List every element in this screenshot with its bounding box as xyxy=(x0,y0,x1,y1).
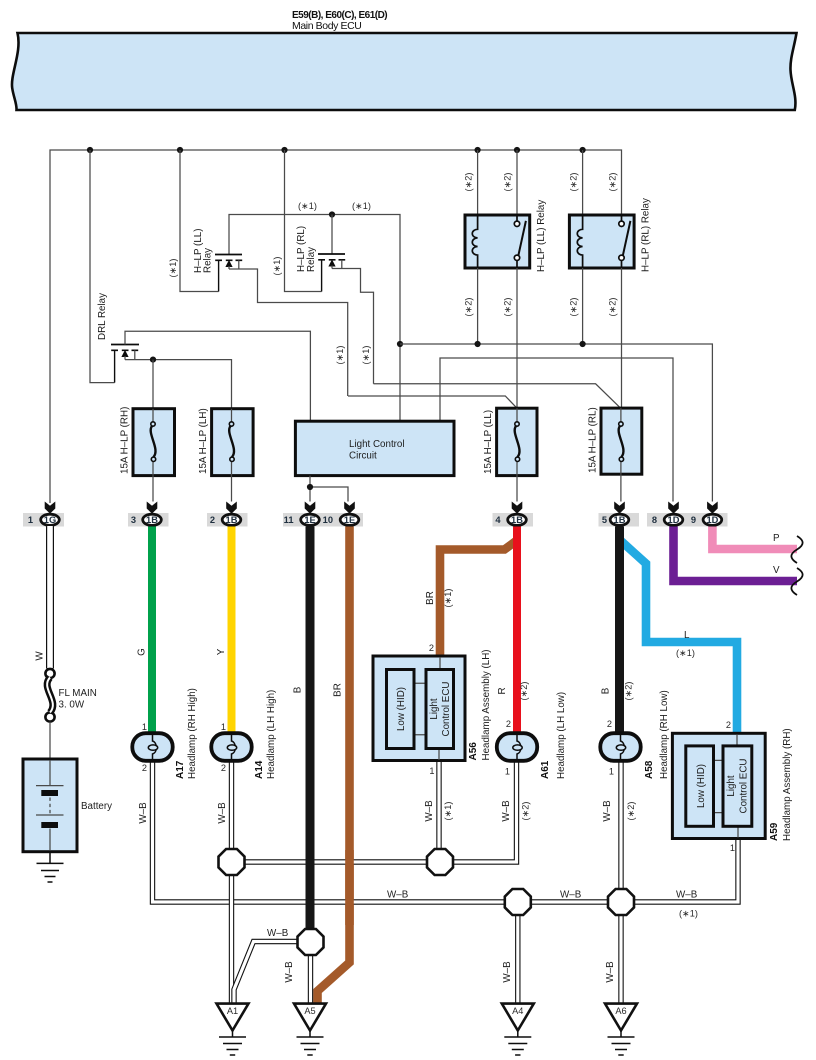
svg-text:Relay: Relay xyxy=(306,247,317,272)
svg-text:W–B: W–B xyxy=(676,890,698,901)
transistor Q1 H-LP (LL) Relay xyxy=(215,255,242,292)
svg-text:1: 1 xyxy=(142,722,147,732)
battery BT1 xyxy=(23,759,77,852)
svg-text:(∗1): (∗1) xyxy=(335,346,345,365)
wire RL gate drop xyxy=(331,215,333,254)
junction node bus x582 xyxy=(580,147,586,153)
wire LCC to connector 8 xyxy=(440,358,673,502)
svg-text:2: 2 xyxy=(210,515,215,525)
svg-text:15A H–LP (LL): 15A H–LP (LL) xyxy=(483,410,494,474)
connector terminal 11 (1E) xyxy=(284,502,320,526)
svg-text:W–B: W–B xyxy=(387,890,409,901)
svg-text:Circuit: Circuit xyxy=(349,451,377,462)
splice octagon J5 main A6 xyxy=(608,889,634,915)
wire W-B octagon branch to A1 xyxy=(234,942,311,1004)
wire P pink from connector 9 xyxy=(712,527,797,550)
ground A6 xyxy=(605,1004,637,1055)
svg-text:(∗1): (∗1) xyxy=(361,346,371,365)
junction node gate RL xyxy=(329,211,335,217)
svg-text:H–LP (RL) Relay: H–LP (RL) Relay xyxy=(641,198,652,272)
svg-text:(∗2): (∗2) xyxy=(608,173,618,192)
connector terminal 9 (1D) xyxy=(691,502,722,526)
splice octagon J3 black wire xyxy=(298,929,324,955)
svg-text:Battery: Battery xyxy=(81,801,112,812)
svg-text:H–LP (LL) Relay: H–LP (LL) Relay xyxy=(536,200,547,272)
connector band xyxy=(493,513,534,527)
transistor Q3 DRL Relay xyxy=(111,345,139,383)
svg-text:W–B: W–B xyxy=(138,802,149,824)
svg-text:Light: Light xyxy=(429,698,440,720)
wire bus to RL relay coil xyxy=(582,150,584,215)
wire V purple from connector 8 xyxy=(674,527,798,582)
svg-text:2: 2 xyxy=(726,720,731,730)
fuse F4 15A H-LP (RL) xyxy=(601,408,642,474)
wire W-B junction to ground A1 xyxy=(229,862,234,1003)
svg-text:11: 11 xyxy=(284,515,294,525)
svg-text:W–B: W–B xyxy=(424,800,435,822)
wire segment black over crossing xyxy=(306,850,315,930)
svg-text:(∗1): (∗1) xyxy=(272,257,282,276)
svg-text:1: 1 xyxy=(609,767,614,777)
junction node bus x477 xyxy=(475,147,481,153)
wire bus to DRL relay source xyxy=(90,150,115,383)
wire junction to RH fuse xyxy=(152,360,154,409)
svg-text:(∗2): (∗2) xyxy=(503,173,513,192)
svg-text:(∗2): (∗2) xyxy=(569,173,579,192)
svg-text:W–B: W–B xyxy=(602,800,613,822)
svg-text:L: L xyxy=(684,630,690,641)
wire bus to H-LP (LL) relay source xyxy=(180,150,219,292)
wire W-B A56 pin1 to junction xyxy=(436,761,441,863)
relay U2 H-LP (LL) Relay box xyxy=(465,215,530,268)
junction node x400 y344 xyxy=(397,341,403,347)
junction node bus x517 xyxy=(514,147,520,153)
svg-text:(∗1): (∗1) xyxy=(443,589,453,608)
connector terminal 1 (1G) xyxy=(28,502,59,526)
wire W-B octagon to ground A4 xyxy=(515,902,520,1003)
wire Y yellow from connector 2 xyxy=(228,527,236,734)
svg-text:W–B: W–B xyxy=(502,961,513,983)
svg-text:Headlamp (LH Low): Headlamp (LH Low) xyxy=(556,692,567,779)
relay U3 H-LP (RL) Relay box xyxy=(569,215,634,268)
svg-text:2: 2 xyxy=(506,719,511,729)
svg-text:A6: A6 xyxy=(615,1006,626,1016)
svg-text:15A H–LP (RH): 15A H–LP (RH) xyxy=(120,407,131,474)
wire bus to LL relay coil xyxy=(477,150,479,215)
connector band xyxy=(647,513,728,527)
junction node LL coil y344 xyxy=(475,341,481,347)
switch of RL relay xyxy=(619,216,631,267)
ground A1 xyxy=(217,1004,249,1055)
svg-text:Headlamp (RH Low): Headlamp (RH Low) xyxy=(659,690,670,779)
junction node DRL drain xyxy=(150,357,156,363)
wire G green from connector 3 xyxy=(148,527,156,734)
svg-text:(∗2): (∗2) xyxy=(626,802,636,821)
fuse F1 15A H-LP (RH) xyxy=(133,409,175,476)
connector terminal 10 (1E) xyxy=(323,502,359,526)
svg-text:Headlamp (LH High): Headlamp (LH High) xyxy=(266,690,277,779)
junction node LCC pins xyxy=(307,484,313,490)
op-amp U4 Light Control Circuit box xyxy=(295,421,454,475)
gate wire for transistor relays xyxy=(229,215,400,422)
svg-text:A1: A1 xyxy=(227,1006,238,1016)
svg-text:1E: 1E xyxy=(344,515,355,525)
svg-text:FL MAIN: FL MAIN xyxy=(59,688,97,699)
wire DRL gate xyxy=(125,331,310,421)
svg-text:1B: 1B xyxy=(226,515,238,525)
wire B black from connector 11 xyxy=(306,527,315,931)
connector terminal 2 (1B) xyxy=(210,502,241,526)
svg-text:1E: 1E xyxy=(304,515,315,525)
svg-text:Headlamp (RH High): Headlamp (RH High) xyxy=(187,688,198,779)
svg-text:1D: 1D xyxy=(668,515,680,525)
svg-text:5: 5 xyxy=(602,515,607,525)
wire BR brown branch to A56 xyxy=(440,541,516,656)
lamp A17 Headlamp (RH High) xyxy=(132,733,172,761)
svg-text:1: 1 xyxy=(505,767,510,777)
wire W-B main ground line A17 to A59 xyxy=(153,761,739,902)
Main Body ECU band U1 xyxy=(12,33,797,110)
svg-text:Relay: Relay xyxy=(203,248,214,273)
fuse FL MAIN 3.0W fusible link xyxy=(45,669,54,722)
svg-text:1: 1 xyxy=(221,722,226,732)
junction node RL coil y344 xyxy=(580,341,586,347)
assembly A56 Headlamp Assembly (LH) box xyxy=(373,656,465,761)
power bus wire xyxy=(50,150,622,503)
assembly A59 Headlamp Assembly (RH) box xyxy=(672,733,765,838)
svg-text:B: B xyxy=(601,687,612,694)
svg-text:Light Control: Light Control xyxy=(349,439,405,450)
svg-text:15A H–LP (LH): 15A H–LP (LH) xyxy=(198,408,209,474)
svg-text:(∗2): (∗2) xyxy=(464,298,474,317)
wire R red from connector 4 xyxy=(513,527,521,734)
svg-text:1B: 1B xyxy=(511,515,523,525)
svg-text:9: 9 xyxy=(691,515,696,525)
wire LL fuse to connector 4 xyxy=(516,476,518,502)
wire LL coil to node line xyxy=(477,268,479,344)
svg-text:Y: Y xyxy=(216,648,227,655)
svg-text:BR: BR xyxy=(425,591,436,605)
svg-text:1: 1 xyxy=(429,766,434,776)
svg-text:3: 3 xyxy=(131,515,136,525)
wire bus to H-LP (RL) relay source xyxy=(285,150,322,292)
svg-text:P: P xyxy=(773,533,780,544)
svg-text:(∗2): (∗2) xyxy=(569,298,579,317)
svg-text:W–B: W–B xyxy=(560,890,582,901)
continuation symbol V wire xyxy=(791,568,802,595)
wire LL transistor drain xyxy=(229,269,348,396)
connector band xyxy=(128,513,169,527)
connector terminal 4 (1B) xyxy=(495,502,526,526)
splice octagon J2 A56 side xyxy=(427,849,453,875)
svg-text:10: 10 xyxy=(323,515,333,525)
svg-text:15A H–LP (RL): 15A H–LP (RL) xyxy=(588,407,599,473)
svg-text:Control ECU: Control ECU xyxy=(441,682,452,737)
svg-text:Control ECU: Control ECU xyxy=(739,759,750,814)
svg-text:1B: 1B xyxy=(614,515,626,525)
svg-text:3. 0W: 3. 0W xyxy=(59,700,85,711)
svg-text:1B: 1B xyxy=(146,515,158,525)
wire RL transistor drain xyxy=(332,269,374,384)
wire LCC pin 11 and pin 10 xyxy=(310,476,348,502)
connector band xyxy=(23,513,64,527)
svg-text:Main Body ECU: Main Body ECU xyxy=(292,20,362,32)
svg-text:(∗1): (∗1) xyxy=(679,909,698,919)
svg-text:G: G xyxy=(137,648,148,656)
svg-text:(∗1): (∗1) xyxy=(676,648,695,658)
svg-text:(∗2): (∗2) xyxy=(519,682,529,701)
wire W-B A58 pin1 through octagon to ground A6 xyxy=(618,761,623,1003)
svg-text:Low (HID): Low (HID) xyxy=(396,687,407,731)
wire RL switch to RL fuse xyxy=(621,268,623,408)
svg-text:(∗1): (∗1) xyxy=(298,201,317,211)
wire bus to LL relay switch xyxy=(516,150,518,215)
wire DRL drain to fuses xyxy=(125,360,232,409)
wire B black from connector 5 xyxy=(615,527,624,734)
svg-text:(∗1): (∗1) xyxy=(443,802,453,821)
ground A4 xyxy=(502,1004,534,1055)
svg-text:1: 1 xyxy=(28,515,33,525)
connector terminal 8 (1D) xyxy=(652,502,683,526)
svg-text:2: 2 xyxy=(429,643,434,653)
svg-text:(∗2): (∗2) xyxy=(521,802,531,821)
svg-text:W–B: W–B xyxy=(605,961,616,983)
svg-text:Headlamp Assembly (RH): Headlamp Assembly (RH) xyxy=(782,728,793,841)
coil of LL relay xyxy=(472,216,477,267)
junction node bus x284 xyxy=(281,147,287,153)
svg-text:R: R xyxy=(497,687,508,694)
svg-text:1D: 1D xyxy=(706,515,718,525)
wire LH fuse to connector 2 xyxy=(231,476,233,502)
svg-text:W: W xyxy=(35,651,46,661)
svg-text:(∗2): (∗2) xyxy=(608,298,618,317)
svg-text:Light: Light xyxy=(726,775,737,797)
svg-text:(∗2): (∗2) xyxy=(503,298,513,317)
svg-text:W–B: W–B xyxy=(267,928,289,939)
wire node line y344 to connector 9 xyxy=(400,344,712,502)
svg-text:(∗1): (∗1) xyxy=(168,259,178,278)
wire RL coil to node line xyxy=(582,268,584,344)
connector terminal 5 (1B) xyxy=(602,502,629,526)
wire RL fuse to connector 5 xyxy=(620,474,622,501)
svg-text:V: V xyxy=(773,565,780,576)
connector band xyxy=(283,513,363,527)
svg-text:A58: A58 xyxy=(644,760,655,779)
svg-text:B: B xyxy=(293,686,304,693)
svg-text:2: 2 xyxy=(221,763,226,773)
wire L cyan branch to A59 xyxy=(621,541,737,733)
wire W-B octagon to ground A5 xyxy=(308,942,313,1003)
svg-text:DRL Relay: DRL Relay xyxy=(97,293,108,340)
lamp A14 Headlamp (LH High) xyxy=(211,733,251,761)
svg-text:1: 1 xyxy=(730,843,735,853)
svg-text:W–B: W–B xyxy=(217,802,228,824)
fuse F3 15A H-LP (LL) xyxy=(497,408,537,475)
lamp A61 Headlamp (LH Low) xyxy=(497,733,537,761)
continuation symbol P wire xyxy=(791,536,802,563)
svg-text:Low (HID): Low (HID) xyxy=(696,764,707,808)
transistor Q2 H-LP (RL) Relay xyxy=(318,254,345,292)
connector band xyxy=(207,513,248,527)
fuse F2 15A H-LP (LH) xyxy=(212,409,254,476)
svg-text:1G: 1G xyxy=(44,515,56,525)
splice octagon J4 main A4 xyxy=(505,889,531,915)
svg-text:2: 2 xyxy=(607,719,612,729)
wire W-B A61 pin1 to junction xyxy=(450,761,517,862)
splice octagon J1 A14 side xyxy=(219,849,245,875)
wire LCC to RL fuse xyxy=(374,384,621,408)
svg-text:8: 8 xyxy=(652,515,657,525)
wire segment brown over crossing xyxy=(345,850,354,925)
switch of LL relay xyxy=(514,216,526,267)
ground below battery xyxy=(37,852,64,882)
svg-text:4: 4 xyxy=(495,515,501,525)
svg-text:A4: A4 xyxy=(512,1006,523,1016)
svg-text:BR: BR xyxy=(333,683,344,697)
wire LCC to LL fuse xyxy=(348,396,517,408)
coil of RL relay xyxy=(577,216,582,267)
junction node bus x90 xyxy=(87,147,93,153)
svg-text:A59: A59 xyxy=(769,822,780,841)
connector terminal 3 (1B) xyxy=(131,502,161,526)
wire RH fuse to connector 3 xyxy=(152,476,154,502)
wire W white from connector 1 xyxy=(46,526,54,669)
svg-text:(∗2): (∗2) xyxy=(624,682,634,701)
svg-text:(∗1): (∗1) xyxy=(352,201,371,211)
junction node bus x180 xyxy=(177,147,183,153)
svg-text:A14: A14 xyxy=(254,760,265,779)
wire LL switch to LL fuse xyxy=(516,268,518,408)
wire fusible link to battery xyxy=(49,722,51,759)
svg-text:W–B: W–B xyxy=(501,800,512,822)
svg-text:(∗2): (∗2) xyxy=(464,173,474,192)
lamp A58 Headlamp (RH Low) xyxy=(600,733,640,761)
svg-text:W–B: W–B xyxy=(284,961,295,983)
wire BR brown from connector 10 to ground A5 xyxy=(318,527,350,1004)
wire W-B A14 to junction xyxy=(232,761,441,862)
svg-text:2: 2 xyxy=(142,763,147,773)
svg-text:A56: A56 xyxy=(468,742,479,761)
svg-text:A5: A5 xyxy=(304,1006,315,1016)
svg-text:Headlamp Assembly (LH): Headlamp Assembly (LH) xyxy=(481,649,492,760)
connector band xyxy=(599,513,640,527)
svg-text:A61: A61 xyxy=(540,760,551,779)
ground A5 xyxy=(294,1004,326,1055)
svg-text:A17: A17 xyxy=(175,760,186,779)
